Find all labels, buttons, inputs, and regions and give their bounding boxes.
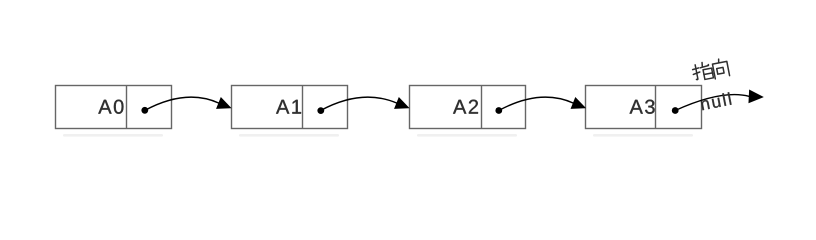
label 指向 (drawn glyphs, rotated)	[691, 58, 729, 82]
shadow under node A0	[63, 134, 163, 137]
shadow under node A3	[593, 134, 693, 137]
node A0 label	[98, 100, 123, 114]
node A1 label	[276, 100, 301, 114]
glyph 向	[712, 58, 730, 79]
node A2 label	[453, 100, 478, 114]
wire arrow A1 to A2	[321, 97, 409, 110]
glyph 指	[691, 61, 713, 82]
wire arrow A2 to A3	[499, 97, 585, 110]
node A1 box	[232, 86, 348, 129]
node A0 pointer dot	[141, 107, 148, 114]
node A3 box	[586, 86, 702, 129]
node A2 pointer dot	[495, 107, 502, 114]
shadow under node A1	[239, 134, 339, 137]
shadow under node A2	[417, 134, 517, 137]
node A0 box	[56, 86, 172, 129]
node A3 label	[630, 100, 655, 114]
wire arrow A0 to A1	[145, 97, 231, 110]
label null (rotated)	[700, 92, 731, 110]
node A2 box	[410, 86, 526, 129]
node A1 pointer dot	[317, 107, 324, 114]
wire arrow A3 to null	[675, 90, 762, 110]
node A3 pointer dot	[672, 107, 679, 114]
